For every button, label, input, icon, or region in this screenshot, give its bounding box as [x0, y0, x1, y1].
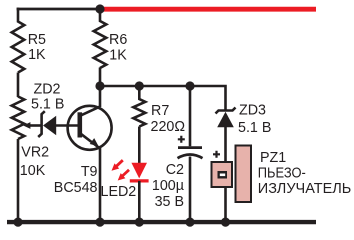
- svg-text:LED2: LED2: [101, 184, 137, 200]
- svg-text:ZD2: ZD2: [34, 82, 61, 98]
- node: LED2 / rail: [135, 218, 144, 227]
- transistor T9 (NPN BC548): [68, 106, 112, 150]
- node: C2 branch junction: [185, 81, 194, 90]
- wire: C2 to bottom rail: [189, 157, 192, 224]
- label VR2 10K: [20, 145, 49, 179]
- wire: top rail left segment: [17, 8, 101, 11]
- wire: emitter to bottom rail: [99, 148, 102, 223]
- node: junction top rail / R5 R6: [95, 4, 104, 13]
- svg-text:VR2: VR2: [21, 145, 49, 161]
- positive supply wire (red): [100, 7, 316, 12]
- svg-text:R7: R7: [151, 103, 169, 119]
- wire: collector node to ZD3 branch: [100, 85, 227, 110]
- wire: ZD3 to bottom rail: [224, 126, 227, 223]
- svg-text:C2: C2: [166, 162, 184, 178]
- svg-text:R5: R5: [28, 32, 46, 48]
- label R6 1K: [109, 32, 127, 63]
- label ZD2 5.1 V: [31, 82, 64, 113]
- svg-text:ZD3: ZD3: [239, 103, 266, 119]
- zener diode ZD3: [216, 108, 236, 128]
- node: C2 / rail: [185, 218, 194, 227]
- piezo PZ1 polarity plus: [213, 151, 220, 158]
- svg-text:R6: R6: [109, 32, 127, 48]
- wire: VR2 to bottom rail: [17, 139, 20, 223]
- svg-text:T9: T9: [81, 164, 98, 180]
- piezo PZ1 element (small plate with minus): [212, 162, 233, 187]
- ground rail (negative supply wire): [7, 220, 316, 224]
- wire: collector to node: [99, 86, 102, 107]
- potentiometer VR2 (resistor body): [12, 97, 25, 140]
- svg-text:35 В: 35 В: [155, 194, 184, 210]
- svg-text:5.1 В: 5.1 В: [238, 120, 271, 136]
- svg-text:ИЗЛУЧАТЕЛЬ: ИЗЛУЧАТЕЛЬ: [258, 181, 352, 197]
- resistor R6: [94, 9, 107, 68]
- resistor R7: [133, 86, 145, 127]
- capacitor C2 polarity plus: [178, 136, 185, 143]
- node: collector junction: [95, 81, 104, 90]
- wire: R5 to VR2: [17, 73, 20, 98]
- svg-text:PZ1: PZ1: [260, 150, 286, 166]
- svg-text:5.1 В: 5.1 В: [31, 97, 64, 113]
- potentiometer VR2 wiper arrow: [23, 122, 41, 129]
- label R5 1K: [28, 32, 46, 63]
- svg-text:1K: 1K: [28, 47, 46, 63]
- wire: ZD2 anode to T9 base: [56, 124, 78, 127]
- resistor R5: [12, 8, 25, 73]
- svg-text:BC548: BC548: [54, 180, 98, 196]
- capacitor C2 (electrolytic): [178, 148, 203, 159]
- svg-text:ПЬЕЗО-: ПЬЕЗО-: [258, 166, 306, 182]
- node: emitter / rail: [95, 218, 104, 227]
- svg-text:220Ω: 220Ω: [151, 119, 186, 135]
- label T9 BC548: [54, 164, 98, 196]
- svg-text:100µ: 100µ: [152, 178, 184, 194]
- wire: R7 to LED2: [138, 127, 141, 165]
- svg-text:10K: 10K: [20, 163, 46, 179]
- wire: LED2 to bottom rail: [138, 181, 141, 223]
- node: R7 branch junction: [135, 81, 144, 90]
- node: VR2 / rail: [13, 218, 22, 227]
- label C2 100u 35V: [152, 162, 184, 210]
- LED LED2 (red): [130, 163, 149, 181]
- zener diode ZD2: [38, 111, 56, 137]
- label PZ1 piezo emitter: [258, 150, 352, 197]
- LED2 emission arrows: [112, 160, 130, 180]
- node: PZ1 / rail: [221, 218, 230, 227]
- piezo PZ1 body plate: [236, 146, 252, 203]
- label ZD3 5.1 V: [238, 103, 271, 137]
- svg-text:1K: 1K: [109, 47, 127, 63]
- wire: node to C2: [189, 86, 192, 146]
- wire: R6 to collector node: [99, 68, 102, 87]
- label R7 220ohm: [151, 103, 186, 135]
